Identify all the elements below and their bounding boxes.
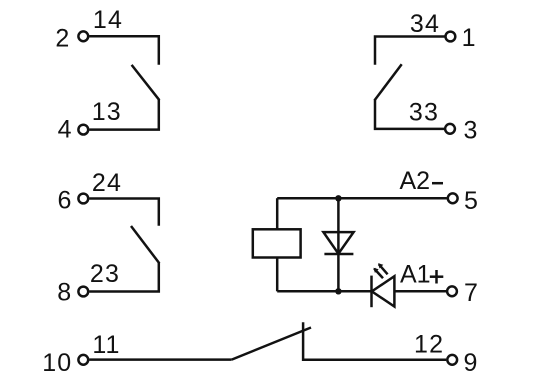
svg-text:12: 12 — [414, 331, 444, 359]
svg-text:9: 9 — [463, 349, 478, 377]
svg-text:33: 33 — [409, 99, 439, 127]
svg-text:7: 7 — [464, 279, 479, 307]
svg-text:3: 3 — [463, 116, 478, 144]
svg-text:A2: A2 — [400, 167, 431, 195]
svg-text:1: 1 — [462, 24, 477, 52]
svg-text:34: 34 — [410, 10, 440, 38]
svg-text:14: 14 — [93, 6, 123, 34]
svg-text:11: 11 — [92, 331, 120, 359]
svg-text:10: 10 — [42, 349, 72, 377]
svg-text:24: 24 — [92, 169, 122, 197]
svg-text:23: 23 — [90, 260, 120, 288]
svg-text:6: 6 — [57, 187, 72, 215]
svg-text:13: 13 — [92, 98, 122, 126]
svg-text:8: 8 — [57, 278, 72, 306]
svg-text:4: 4 — [58, 116, 73, 144]
svg-text:5: 5 — [464, 187, 479, 215]
svg-text:A1: A1 — [400, 261, 431, 289]
svg-text:2: 2 — [55, 25, 70, 53]
